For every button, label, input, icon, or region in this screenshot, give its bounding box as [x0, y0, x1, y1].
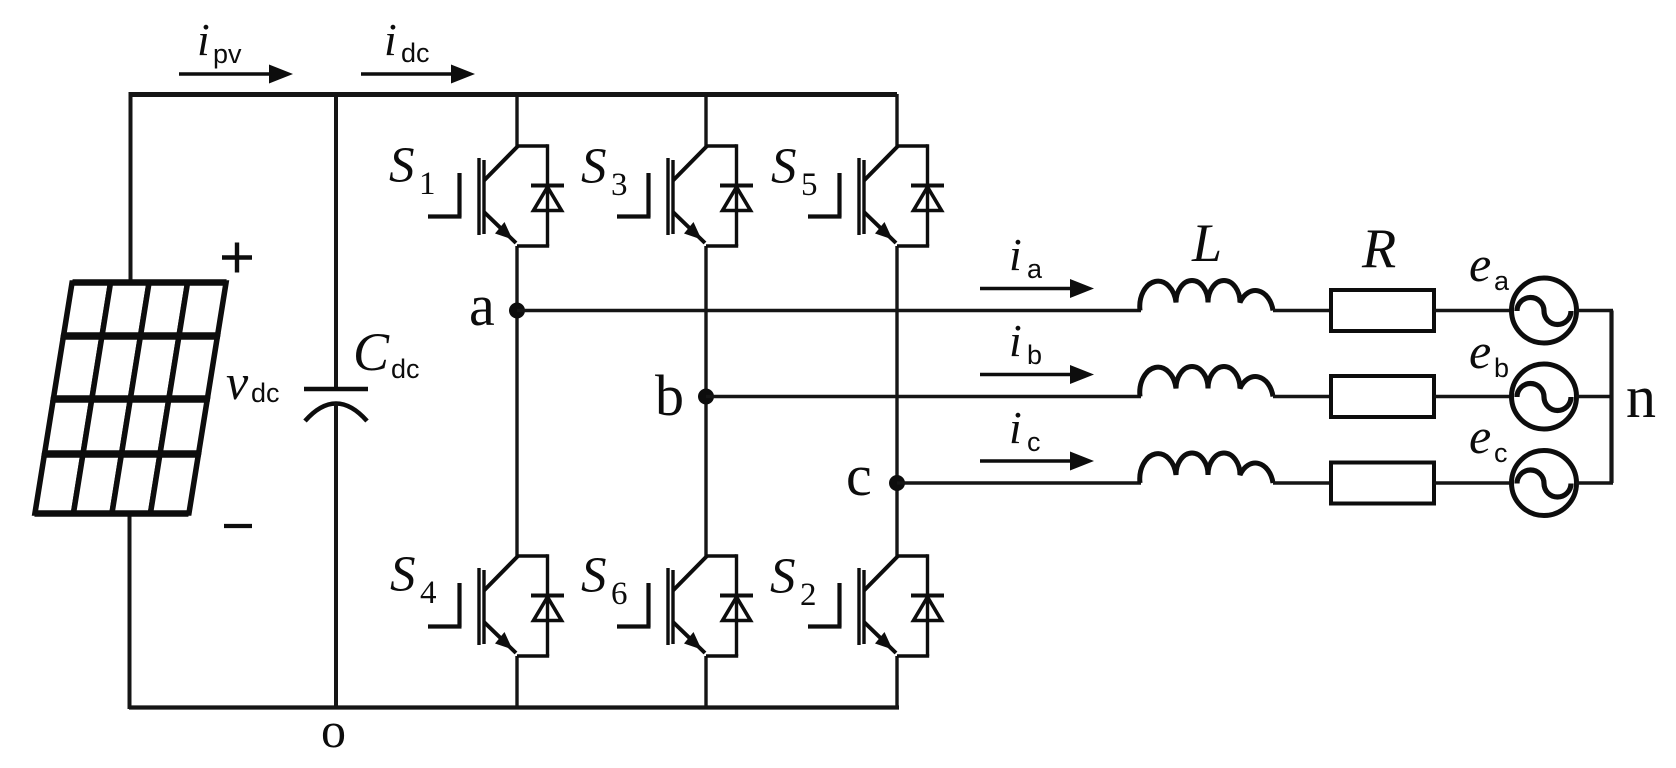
svg-text:S: S [770, 549, 796, 605]
wire: leg a lower (S4 to bottom bus) [515, 656, 518, 709]
resistor R phase b [1331, 376, 1434, 417]
inductor L phase a [1140, 281, 1273, 311]
ac source e_b [1512, 364, 1577, 429]
wire: phase c source to neutral bus [1576, 481, 1613, 484]
wire: leg c lower (S2 to bottom bus) [895, 656, 898, 709]
svg-text:c: c [1027, 427, 1041, 457]
svg-text:a: a [1027, 254, 1043, 284]
wire: phase a from node a to inductor [517, 309, 1141, 312]
inductor L phase c [1140, 453, 1273, 483]
transistor S5 (IGBT with freewheel diode) [808, 144, 944, 246]
svg-text:C: C [353, 322, 390, 382]
svg-text:pv: pv [213, 39, 242, 69]
current arrow i_c [980, 452, 1094, 471]
inductor L phase b [1140, 367, 1273, 397]
wire: top DC bus [129, 92, 897, 97]
svg-text:i: i [1009, 402, 1022, 453]
wire: leg a from S1 emitter to node a [515, 246, 518, 311]
transistor S1 (IGBT with freewheel diode) [428, 144, 564, 246]
svg-text:i: i [1009, 315, 1022, 366]
wire: neutral bus n [1609, 311, 1613, 484]
svg-text:dc: dc [401, 38, 430, 68]
wire: phase c resistor to source e_c [1434, 481, 1513, 484]
wire: leg b from S3 emitter to node b [704, 246, 707, 397]
node a junction dot [509, 303, 525, 319]
wire: leg b lower (S6 to bottom bus) [704, 656, 707, 709]
svg-text:o: o [321, 702, 346, 758]
wire: capacitor branch lower (C_dc to bottom bus) [334, 403, 338, 709]
svg-text:a: a [1494, 266, 1510, 296]
svg-text:6: 6 [611, 576, 628, 612]
svg-text:c: c [846, 443, 872, 508]
wire: phase b from node b to inductor [706, 395, 1141, 398]
current arrow i_dc [361, 65, 475, 84]
svg-text:v: v [226, 354, 249, 410]
wire: phase b resistor to source e_b [1434, 395, 1513, 398]
current arrow i_pv [179, 65, 293, 84]
wire: capacitor branch upper (top bus to C_dc) [334, 94, 338, 389]
wire: phase b inductor to resistor [1273, 395, 1331, 398]
wire: leg a from node a to S4 [515, 311, 518, 557]
wire: leg b upper (bus to S3) [704, 94, 707, 146]
svg-text:dc: dc [391, 354, 420, 384]
svg-text:S: S [581, 548, 607, 604]
svg-text:3: 3 [611, 167, 628, 203]
wire: leg c upper (bus to S5) [895, 94, 898, 146]
svg-text:a: a [469, 273, 495, 338]
transistor S2 (IGBT with freewheel diode) [808, 554, 944, 656]
node b junction dot [698, 389, 714, 405]
current arrow i_b [980, 365, 1094, 384]
resistor R phase c [1331, 463, 1434, 504]
transistor S6 (IGBT with freewheel diode) [617, 554, 753, 656]
transistor S4 (IGBT with freewheel diode) [428, 554, 564, 656]
wire: phase c from node c to inductor [897, 481, 1141, 484]
wire: leg b from node b to S6 [704, 397, 707, 557]
svg-text:2: 2 [800, 577, 817, 613]
wire: phase a inductor to resistor [1273, 309, 1331, 312]
ac source e_c [1512, 451, 1577, 516]
resistor R phase a [1331, 290, 1434, 331]
svg-text:e: e [1469, 236, 1491, 292]
wire: left vertical from top bus to PV + terminal [129, 92, 133, 284]
svg-text:b: b [1027, 340, 1042, 370]
svg-text:n: n [1626, 364, 1656, 430]
svg-text:5: 5 [801, 167, 818, 203]
wire: phase a source to neutral bus [1576, 309, 1613, 312]
ac source e_a [1512, 278, 1577, 343]
svg-text:e: e [1469, 408, 1491, 464]
transistor S3 (IGBT with freewheel diode) [617, 144, 753, 246]
svg-text:e: e [1469, 323, 1491, 379]
wire: leg c from S5 emitter to node c [895, 246, 898, 483]
wire: phase a resistor to source e_a [1434, 309, 1513, 312]
svg-text:S: S [390, 547, 416, 603]
node c junction dot [889, 475, 905, 491]
wire: bottom DC bus (node o rail) [129, 705, 899, 709]
wire: left vertical from PV - terminal to bottom bus [128, 512, 132, 709]
svg-text:S: S [581, 139, 607, 195]
svg-text:i: i [197, 14, 210, 65]
wire: leg c from node c to S2 [895, 483, 898, 556]
svg-text:c: c [1494, 438, 1508, 468]
svg-text:b: b [1494, 353, 1509, 383]
svg-text:i: i [384, 14, 397, 65]
PV solar array panel [33, 282, 228, 514]
current arrow i_a [980, 279, 1094, 298]
svg-text:R: R [1361, 218, 1396, 280]
svg-text:b: b [655, 363, 684, 428]
svg-text:1: 1 [419, 166, 436, 202]
label: + polarity of PV [222, 243, 252, 273]
svg-text:S: S [389, 138, 415, 194]
svg-text:i: i [1009, 229, 1022, 280]
wire: phase b source to neutral bus [1576, 395, 1613, 398]
wire: phase c inductor to resistor [1273, 481, 1331, 484]
svg-text:S: S [771, 139, 797, 195]
svg-text:L: L [1191, 213, 1222, 273]
capacitor C_dc [304, 389, 368, 421]
svg-text:dc: dc [251, 378, 280, 408]
label: - polarity of PV [224, 524, 252, 528]
svg-text:4: 4 [420, 575, 437, 611]
wire: leg a upper (bus to S1) [515, 94, 518, 146]
